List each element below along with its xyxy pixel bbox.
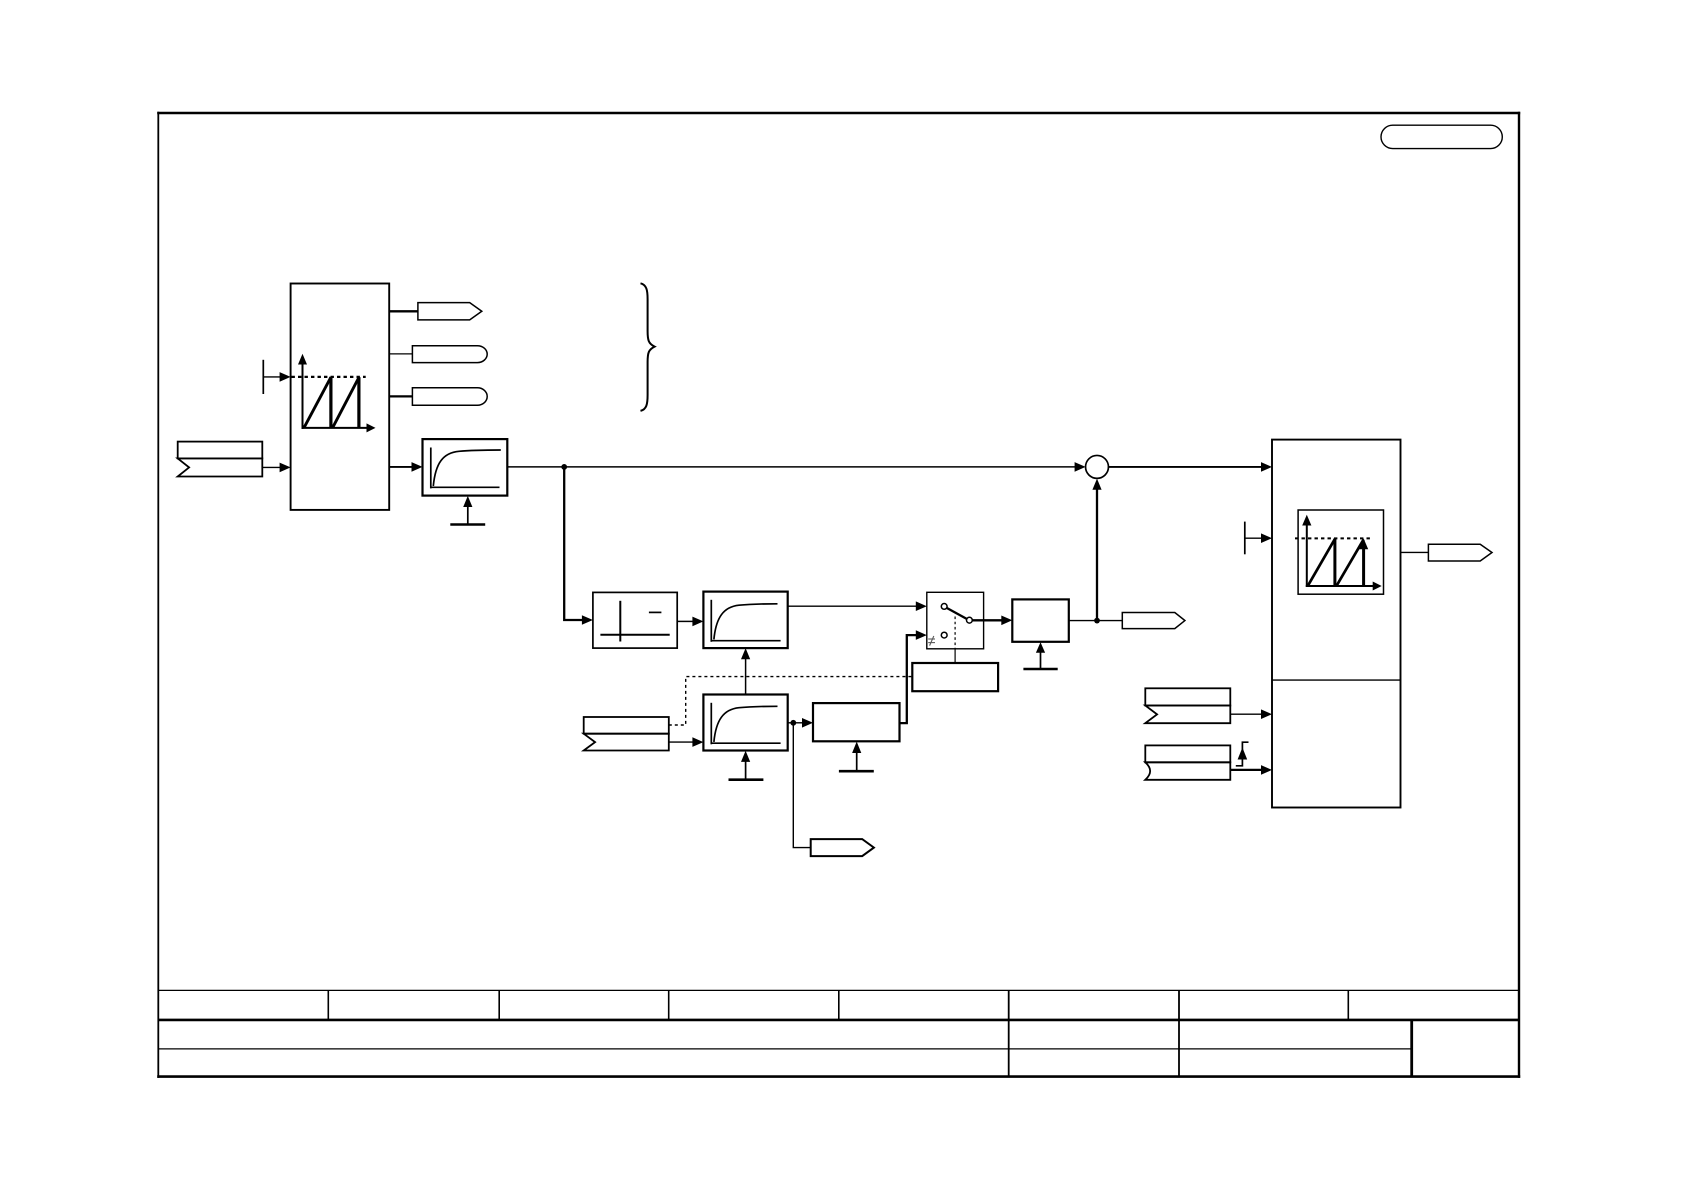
wire F1 to U1 [262, 466, 281, 468]
output connector O4 (pointed) [811, 839, 874, 856]
U2 icon drop 1 [1333, 539, 1336, 586]
frame left border [157, 112, 159, 1078]
title block top line [158, 989, 1519, 991]
switch control dashed line [954, 617, 956, 649]
wire B3 to switch upper input [788, 605, 916, 607]
wire F3 to U2 [1230, 713, 1261, 715]
U2 icon horizontal axis [1306, 585, 1374, 587]
frame right border [1518, 112, 1520, 1078]
signal flag F1 (bottom row with chevron) [178, 458, 263, 476]
wire B4 to block B5 with node B [788, 722, 802, 724]
setpoint T-bar input to U1 [262, 360, 264, 394]
frame top border [157, 112, 1520, 115]
output connector O6 (pointed) [1428, 544, 1492, 561]
title block thin divider [158, 1048, 1411, 1050]
summing point S1 [1086, 455, 1109, 478]
wire U1 to output connector O1 [390, 310, 419, 312]
block B6 [1012, 599, 1069, 641]
parameter input below B5 [839, 770, 874, 773]
sawtooth icon in U1: horizontal axis [302, 427, 369, 429]
signal flag F4 (top row) [1145, 745, 1230, 762]
not-equal annotation [928, 636, 935, 646]
output connector O5 (pointed) [1122, 613, 1185, 629]
U2 icon ramp 1 [1308, 539, 1335, 586]
sawtooth icon in U1: vertical axis [302, 361, 304, 429]
dashed wire flag F2 to comparison box [669, 677, 912, 725]
title block column separator 5 (full height) [1008, 990, 1010, 1076]
wire B5 up to switch lower input [900, 635, 917, 723]
signal flag F2 (top row) [584, 717, 669, 734]
title block corner cell separator [1410, 1020, 1413, 1077]
wire F2 to B4 [669, 741, 693, 743]
signal flag F3 (top row) [1145, 688, 1230, 705]
U2 icon dotted limit line [1295, 537, 1371, 539]
block B5 (setting time) [813, 703, 900, 741]
wire B2 to smoothing block B3 [677, 620, 692, 622]
rising edge symbol [1236, 742, 1249, 766]
switch lever [947, 608, 967, 619]
title block column separator 2 [498, 990, 500, 1020]
setpoint T-bar input to U2 [1244, 522, 1246, 555]
signal flag F4 (bottom row with arc) [1145, 762, 1230, 780]
wire node B down to output connector O4 [793, 723, 811, 848]
title block column separator 7 [1347, 990, 1349, 1020]
title block column separator 6 (full height) [1178, 990, 1180, 1076]
output connector O3 (round end) [412, 388, 487, 405]
signal flag F2 (bottom row with chevron) [584, 734, 669, 751]
U2 internal divider [1272, 679, 1401, 681]
U2 icon ramp 2 [1337, 539, 1364, 585]
smoothing block B4 (PT1) [703, 695, 787, 751]
wire U1 to smoothing block B1 [390, 466, 412, 468]
signal flag F3 (bottom row with chevron) [1145, 706, 1230, 724]
parameter input below B4 [729, 778, 764, 781]
wire SW1 to block B6 [972, 619, 1002, 621]
sawtooth icon box in U2 [1298, 510, 1383, 594]
output connector O1 (pointed) [418, 303, 482, 320]
parameter input below B6 [1023, 668, 1057, 671]
switch upper contact [941, 604, 947, 610]
sawtooth icon in U1: ramp 2 [333, 377, 359, 427]
switch block SW1 [927, 592, 984, 649]
wire node C up to summing point [1096, 489, 1098, 621]
sawtooth icon in U1: dotted limit line [292, 376, 366, 378]
wire summing point to ramp generator [1108, 466, 1261, 468]
ramp generator block U2 [1272, 440, 1401, 808]
motorized potentiometer block U1 [291, 284, 390, 510]
wire B6 to output connector O5 with node C [1069, 620, 1123, 622]
curly brace [641, 283, 655, 411]
sawtooth icon in U1: ramp 1 [304, 377, 331, 427]
wire B4 top to B3 bottom [745, 658, 747, 694]
title block column separator 3 [668, 990, 670, 1020]
junction node A [561, 464, 567, 470]
wire U2 to output connector O6 [1401, 551, 1430, 553]
U2 icon vertical axis [1306, 522, 1308, 587]
title block column separator 4 [838, 990, 840, 1020]
frame bottom border [157, 1075, 1520, 1078]
wire F4 to U2 [1230, 769, 1261, 771]
sawtooth icon in U1: drop 2 [357, 377, 360, 428]
output connector O2 (round end) [412, 346, 487, 363]
switch pole contact [967, 617, 973, 623]
inverter block B2 [593, 592, 677, 648]
switch lower contact [941, 632, 947, 638]
signal flag F1 (top row) [178, 442, 263, 459]
main wire B1 to summing point [507, 466, 1075, 468]
title block column separator 1 [327, 990, 329, 1020]
smoothing block B1 (PT1) [423, 439, 508, 496]
page number stadium label top right [1381, 125, 1502, 148]
sawtooth icon in U1: drop 1 [329, 377, 332, 428]
smoothing block B3 (PT1) [703, 592, 787, 649]
title block thick divider [158, 1019, 1519, 1022]
wire U1 to output connector O2 [390, 353, 413, 355]
parameter input below B1 [450, 523, 485, 526]
comparison label box [912, 663, 998, 691]
wire U1 to output connector O3 [390, 395, 413, 397]
wire node A down to inverter [564, 467, 582, 620]
U2 icon drop 2 with up arrow [1362, 545, 1365, 586]
